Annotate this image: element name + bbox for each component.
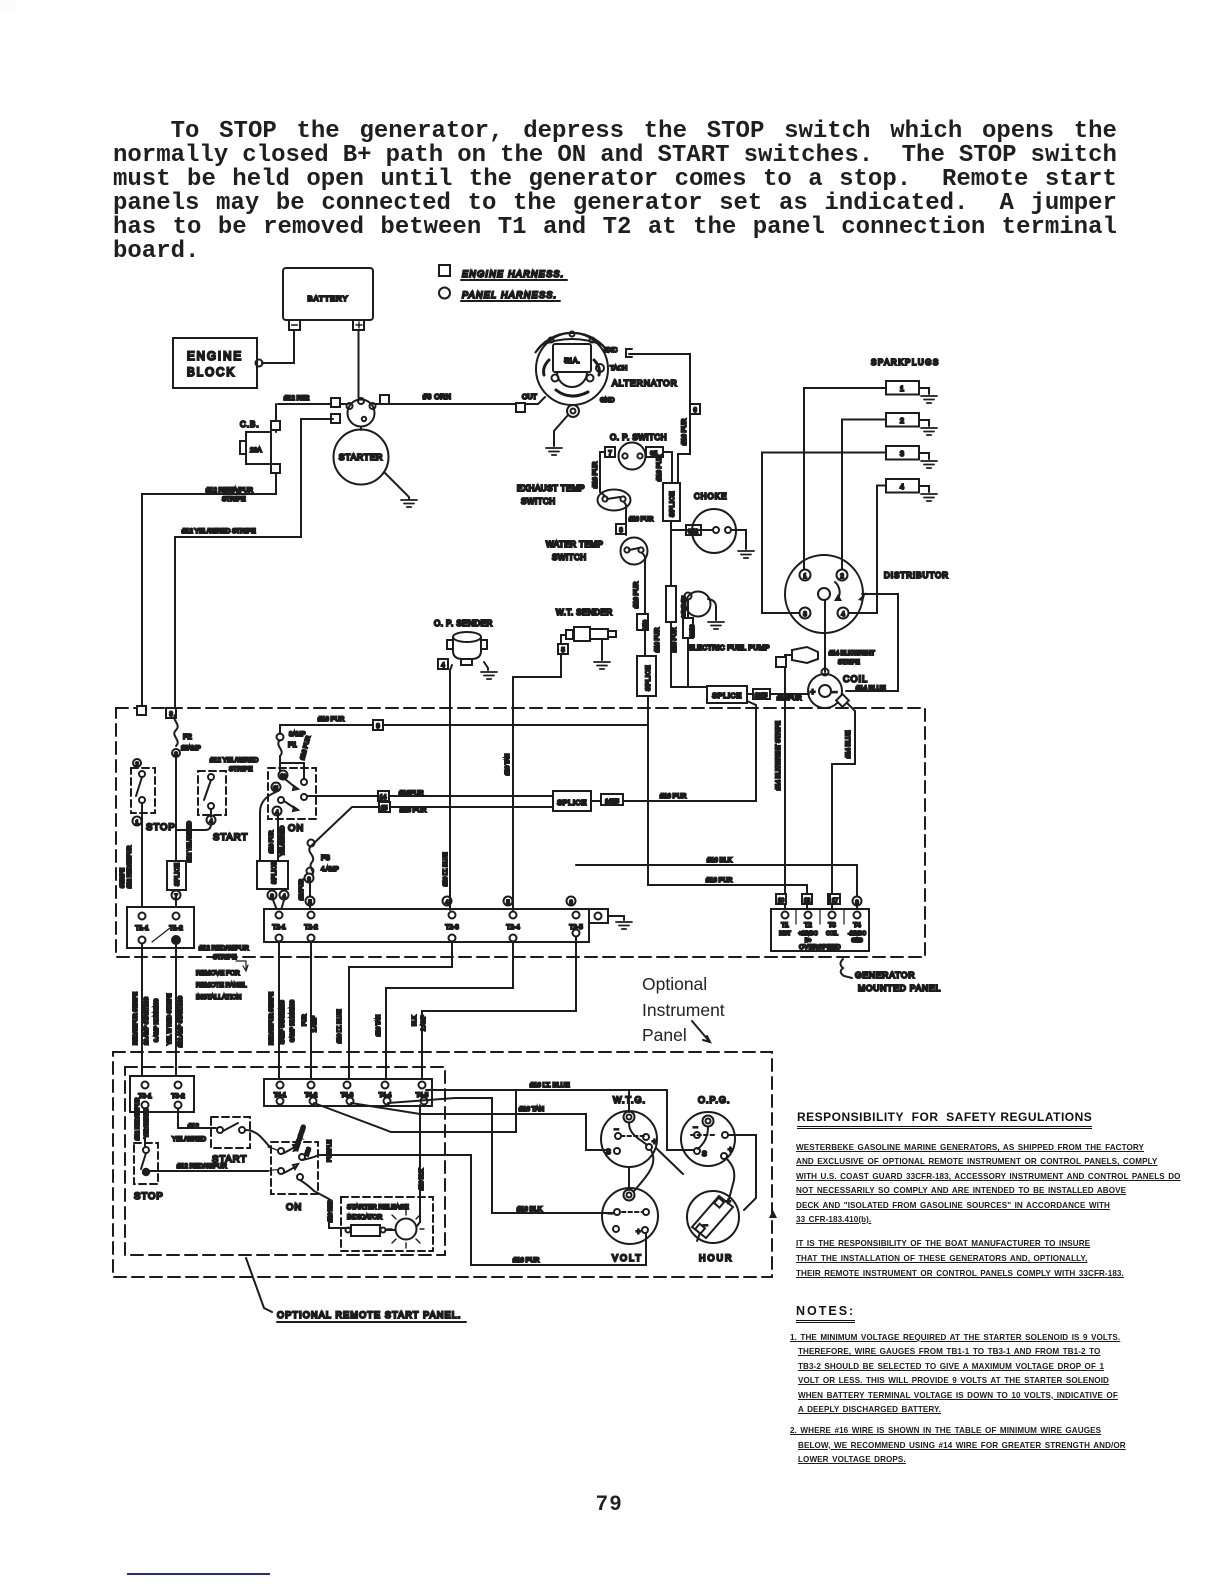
svg-text:#14 BLK/W/WHT: #14 BLK/W/WHT [829, 651, 875, 657]
svg-text:DIST: DIST [779, 931, 790, 937]
svg-text:SPLICE: SPLICE [557, 798, 587, 807]
svg-text:O. P. SWITCH: O. P. SWITCH [610, 433, 667, 442]
svg-text:#16 LT. BLUE: #16 LT. BLUE [337, 1009, 343, 1043]
svg-text:O. P. SENDER: O. P. SENDER [434, 619, 493, 628]
svg-text:4: 4 [445, 900, 448, 906]
svg-text:YEL W RED STRIPE: YEL W RED STRIPE [167, 993, 173, 1045]
svg-text:#12 RED/W/PUR: #12 RED/W/PUR [199, 945, 249, 952]
svg-text:6: 6 [569, 900, 572, 906]
svg-text:9/10: 9/10 [643, 620, 649, 630]
svg-text:T2-1: T2-1 [272, 924, 286, 931]
svg-text:−: − [693, 1123, 698, 1132]
svg-text:SPLICE: SPLICE [669, 491, 676, 517]
svg-text:#14 BLUE: #14 BLUE [856, 685, 886, 692]
svg-text:SPLICE: SPLICE [712, 691, 742, 700]
svg-text:SWITCH: SWITCH [521, 497, 556, 506]
svg-text:RED/W/PUR STRIPE: RED/W/PUR STRIPE [133, 992, 139, 1045]
svg-text:9: 9 [855, 900, 858, 906]
svg-text:F2: F2 [183, 732, 192, 741]
svg-text:REMOVE FOR: REMOVE FOR [196, 970, 240, 977]
svg-text:#16 PUR: #16 PUR [655, 627, 661, 652]
svg-text:#16 TAN: #16 TAN [519, 1106, 544, 1113]
svg-text:VOLT: VOLT [612, 1253, 643, 1263]
svg-text:W.T. SENDER: W.T. SENDER [556, 608, 613, 617]
svg-text:T2-3: T2-3 [445, 924, 459, 931]
svg-text:#14 BLK/W/WHT STRIPE: #14 BLK/W/WHT STRIPE [776, 721, 782, 790]
svg-text:3: 3 [900, 451, 904, 458]
svg-text:T2-4: T2-4 [506, 924, 520, 931]
svg-text:#16 PUR: #16 PUR [592, 461, 599, 488]
svg-text:STRIPE: STRIPE [229, 766, 253, 773]
svg-text:DISTRIBUTOR: DISTRIBUTOR [884, 571, 949, 580]
svg-text:ELECTRIC FUEL PUMP: ELECTRIC FUEL PUMP [688, 645, 770, 652]
svg-text:#12 YEL/W/RED: #12 YEL/W/RED [210, 757, 259, 764]
svg-text:−: − [832, 687, 837, 697]
svg-text:SPLICE: SPLICE [175, 863, 181, 886]
svg-text:6 AMP RUNNING: 6 AMP RUNNING [154, 999, 160, 1042]
svg-text:#16 TAN: #16 TAN [376, 1015, 382, 1036]
svg-text:4 AMP: 4 AMP [321, 867, 339, 873]
svg-text:#16PUR: #16PUR [777, 695, 802, 702]
svg-text:2: 2 [900, 418, 904, 425]
svg-text:BLOCK: BLOCK [187, 367, 236, 379]
svg-text:W.T.G.: W.T.G. [613, 1095, 646, 1105]
svg-text:S: S [702, 1151, 707, 1158]
svg-text:6AMP RUNNING: 6AMP RUNNING [290, 1000, 296, 1042]
svg-text:ENGINE HARNESS.: ENGINE HARNESS. [462, 269, 565, 279]
svg-text:#12 RED/W/PUR: #12 RED/W/PUR [127, 846, 133, 888]
svg-text:PANEL HARNESS.: PANEL HARNESS. [462, 290, 557, 300]
svg-text:#16 PUR: #16 PUR [706, 877, 733, 884]
svg-text:+: + [810, 687, 815, 697]
svg-text:#16 PUR: #16 PUR [513, 1257, 540, 1264]
svg-text:GND: GND [600, 397, 615, 404]
svg-text:12: 12 [804, 898, 810, 904]
svg-text:T1-2: T1-2 [169, 925, 183, 932]
svg-text:2 AMP: 2 AMP [312, 1015, 318, 1032]
svg-text:SPLICE: SPLICE [272, 861, 278, 884]
svg-text:T1-1: T1-1 [135, 925, 149, 932]
svg-text:1: 1 [135, 820, 138, 826]
svg-text:#16 LT. BLUE: #16 LT. BLUE [443, 852, 449, 886]
svg-text:−: − [614, 1125, 619, 1134]
svg-text:+: + [728, 1145, 733, 1154]
svg-text:#16 PUR: #16 PUR [656, 454, 663, 481]
svg-text:1: 1 [900, 386, 904, 393]
svg-text:START: START [213, 832, 248, 843]
svg-text:51A.: 51A. [564, 356, 579, 365]
svg-text:T4: T4 [853, 922, 861, 929]
svg-text:STARTER RELEASE: STARTER RELEASE [347, 1204, 409, 1211]
svg-text:#12 RED/W/PUR: #12 RED/W/PUR [135, 1098, 141, 1140]
svg-text:#12 AMP STARTING: #12 AMP STARTING [178, 996, 184, 1047]
svg-text:ALTERNATOR: ALTERNATOR [612, 378, 678, 388]
svg-text:#12 YEL/W/RED STRIPE: #12 YEL/W/RED STRIPE [182, 528, 256, 535]
svg-text:REMOTE PANEL: REMOTE PANEL [196, 982, 247, 989]
svg-text:RED/W/PUR STRIPE: RED/W/PUR STRIPE [269, 992, 275, 1045]
svg-text:INSTALLATION: INSTALLATION [196, 994, 242, 1001]
svg-text:#12 RED/W/PUR: #12 RED/W/PUR [177, 1163, 227, 1170]
svg-text:14: 14 [380, 795, 387, 801]
svg-text:EXHAUST TEMP: EXHAUST TEMP [517, 484, 585, 493]
svg-text:#16 PUR: #16 PUR [672, 627, 678, 652]
svg-text:BLK: BLK [412, 1015, 418, 1026]
svg-text:+12VDC: +12VDC [798, 931, 817, 937]
svg-text:#16 BLK: #16 BLK [419, 1169, 425, 1190]
svg-text:C.B.: C.B. [240, 420, 260, 429]
svg-text:F1: F1 [288, 740, 297, 749]
svg-text:#16 BLK: #16 BLK [707, 857, 733, 864]
svg-text:COIL: COIL [843, 674, 868, 684]
svg-text:EXC: EXC [604, 347, 618, 354]
svg-text:OVERSPEED: OVERSPEED [799, 945, 841, 951]
svg-text:GENERATOR: GENERATOR [855, 970, 915, 980]
svg-text:YEL/W/RED: YEL/W/RED [280, 826, 286, 856]
svg-text:#16 PUR: #16 PUR [269, 831, 275, 853]
svg-text:WATER TEMP: WATER TEMP [546, 540, 603, 549]
svg-text:TACH: TACH [610, 365, 628, 372]
svg-text:−: − [608, 1209, 613, 1218]
svg-text:#16 BLK: #16 BLK [517, 1206, 543, 1213]
svg-text:COIL: COIL [826, 931, 838, 937]
svg-text:GND: GND [851, 938, 863, 944]
svg-text:OPTIONAL REMOTE START PANEL.: OPTIONAL REMOTE START PANEL. [277, 1310, 462, 1320]
svg-text:#16 LT. BLUE: #16 LT. BLUE [530, 1082, 570, 1089]
svg-text:8AMP: 8AMP [289, 732, 305, 738]
svg-text:−: − [703, 1221, 708, 1230]
svg-text:#8 ORN: #8 ORN [423, 394, 451, 401]
svg-text:ON: ON [288, 823, 304, 834]
svg-text:PUR: PUR [302, 1014, 308, 1026]
svg-text:#16 PUR: #16 PUR [681, 418, 688, 445]
svg-text:#14 BLUE: #14 BLUE [846, 731, 852, 758]
svg-text:ON: ON [286, 1202, 302, 1213]
svg-text:#12: #12 [188, 1123, 199, 1130]
svg-text:#16 PUR: #16 PUR [633, 581, 640, 608]
svg-text:OUT: OUT [522, 394, 538, 401]
svg-text:8AMP STARTING: 8AMP STARTING [280, 1000, 286, 1044]
svg-text:HOUR: HOUR [699, 1253, 734, 1263]
svg-text:2 AMP: 2 AMP [421, 1014, 427, 1031]
svg-text:#16 PUR: #16 PUR [660, 793, 687, 800]
svg-text:CHOKE: CHOKE [694, 492, 727, 501]
svg-text:BATTERY: BATTERY [308, 294, 349, 303]
svg-text:STRIPE: STRIPE [213, 954, 237, 961]
svg-text:INDICATOR: INDICATOR [347, 1214, 382, 1221]
svg-text:STOP: STOP [134, 1191, 164, 1202]
svg-text:YEL/WRED: YEL/WRED [172, 1136, 206, 1143]
svg-text:O.P.G.: O.P.G. [698, 1095, 730, 1105]
svg-text:#16 PUR: #16 PUR [300, 735, 312, 761]
svg-text:5: 5 [308, 900, 311, 906]
svg-text:14/15: 14/15 [605, 799, 619, 805]
svg-text:STRIPE: STRIPE [838, 660, 860, 666]
svg-text:#16 PUR: #16 PUR [629, 517, 654, 523]
svg-text:#12 RE5/A/PUR: #12 RE5/A/PUR [206, 487, 253, 494]
svg-text:12/15: 12/15 [755, 693, 768, 699]
svg-text:+: + [726, 1197, 731, 1206]
svg-text:#16PUR: #16PUR [299, 879, 305, 900]
svg-text:20A: 20A [250, 447, 262, 454]
svg-text:10 AMP STARTING: 10 AMP STARTING [144, 997, 150, 1045]
svg-text:5: 5 [506, 900, 509, 906]
svg-text:#16PUR: #16PUR [399, 790, 424, 797]
svg-text:T1: T1 [781, 922, 789, 929]
svg-text:T2-2: T2-2 [304, 924, 318, 931]
svg-text:S: S [606, 1149, 611, 1156]
svg-text:STOP: STOP [146, 822, 176, 833]
svg-text:#16 RED: #16 RED [328, 1200, 334, 1222]
svg-text:SPARKPLUGS: SPARKPLUGS [871, 358, 940, 367]
svg-text:+: + [636, 1227, 641, 1236]
svg-text:#12 RE2: #12 RE2 [284, 395, 310, 402]
svg-text:F3: F3 [321, 853, 330, 862]
svg-text:4: 4 [900, 484, 904, 491]
svg-text:#16: #16 [304, 1147, 312, 1157]
svg-text:16: 16 [778, 898, 784, 904]
svg-text:#12 YEL/W/RED: #12 YEL/W/RED [187, 821, 193, 862]
svg-text:17: 17 [832, 898, 838, 904]
svg-text:STRIPE: STRIPE [222, 496, 246, 503]
svg-text:#16 TAN: #16 TAN [505, 754, 511, 775]
svg-text:STRIPE: STRIPE [120, 868, 126, 888]
svg-text:PURPLE: PURPLE [327, 1140, 333, 1162]
svg-text:#16 PUR: #16 PUR [400, 807, 427, 814]
svg-text:15AMP: 15AMP [181, 746, 201, 752]
svg-text:#16 PUR: #16 PUR [318, 716, 345, 723]
svg-text:SPLICE: SPLICE [645, 665, 652, 691]
svg-text:STARTER: STARTER [339, 452, 384, 462]
svg-text:T3-2: T3-2 [171, 1093, 185, 1100]
svg-text:12/13: 12/13 [690, 625, 696, 638]
svg-text:-12VDC: -12VDC [848, 931, 866, 937]
svg-text:B+: B+ [805, 938, 811, 944]
svg-text:MOUNTED PANEL: MOUNTED PANEL [858, 983, 941, 993]
svg-text:15: 15 [381, 806, 388, 812]
svg-text:SWITCH: SWITCH [552, 553, 587, 562]
svg-text:ENGINE: ENGINE [187, 351, 243, 363]
svg-text:T3: T3 [828, 922, 836, 929]
svg-text:+: + [652, 1137, 657, 1146]
svg-text:T2: T2 [804, 922, 812, 929]
